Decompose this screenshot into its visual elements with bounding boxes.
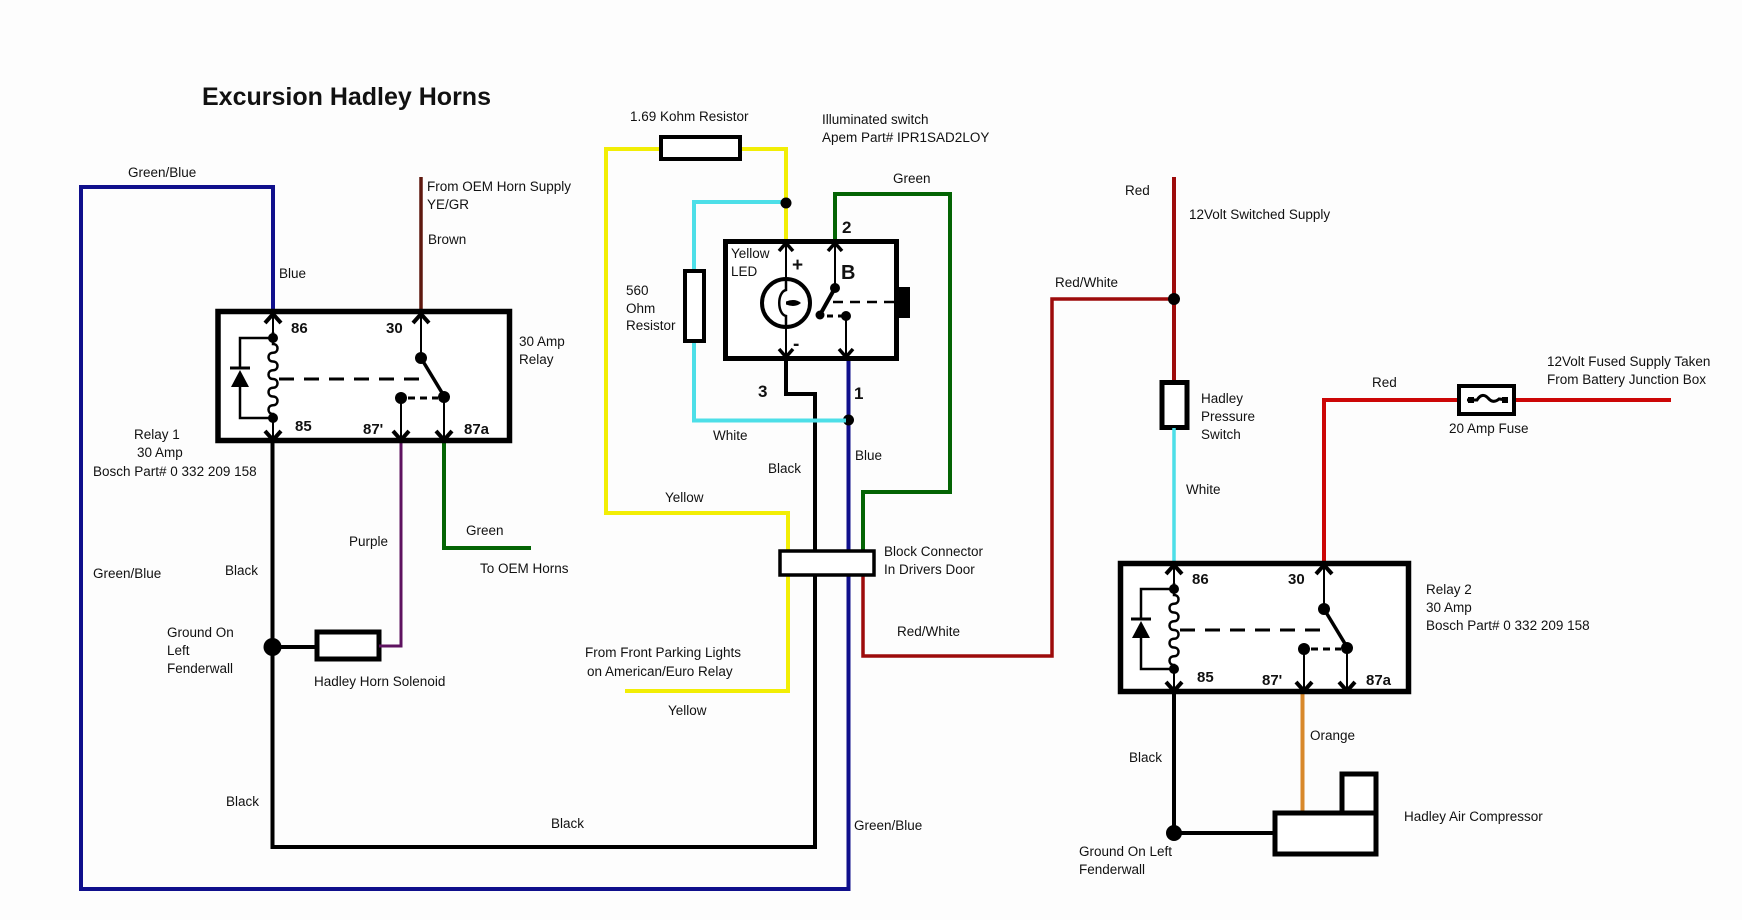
svg-text:87a: 87a <box>1366 672 1392 689</box>
relay K2 pin 30 lead <box>1323 564 1325 609</box>
relay K2 pin 30 arrow <box>1316 565 1332 574</box>
wire black from switch pin3 to ground run <box>273 361 816 847</box>
relay K2 dashed 87' contact gap <box>1311 648 1341 651</box>
relay K2 pin 86 lead <box>1173 564 1175 589</box>
svg-text:Bosch Part# 0 332 209 158: Bosch Part# 0 332 209 158 <box>93 464 257 479</box>
lamp DS1 filament arc <box>779 280 786 327</box>
node junction blue/white at switch pin1 <box>843 415 854 426</box>
svg-text:Black: Black <box>226 794 259 809</box>
relay K2 node 87' contact <box>1298 643 1310 655</box>
relay K1 pin 86 arrow <box>265 314 281 323</box>
svg-text:86: 86 <box>291 320 308 337</box>
relay K1 diode branch wire <box>240 338 273 418</box>
svg-text:Apem Part# IPR1SAD2LOY: Apem Part# IPR1SAD2LOY <box>822 130 989 145</box>
svg-text:Relay 2: Relay 2 <box>1426 582 1472 597</box>
node ground junction relay2 <box>1166 825 1182 841</box>
switch S1 pin 1 lead <box>845 316 847 359</box>
relay K2 diode branch wire <box>1141 589 1174 669</box>
svg-text:Red: Red <box>1372 375 1397 390</box>
svg-text:Red: Red <box>1125 183 1150 198</box>
svg-text:560: 560 <box>626 283 649 298</box>
wire orange relay2 pin87' to compressor <box>1301 694 1305 813</box>
svg-text:Red/White: Red/White <box>897 624 960 639</box>
relay K1 pin 87a lead <box>443 397 445 440</box>
relay K2 pin 87a arrow <box>1339 682 1355 691</box>
compressor M1 head box <box>1342 774 1376 813</box>
switch S1 arm tip dot <box>816 311 825 320</box>
lamp DS1 filament lens <box>786 300 801 306</box>
wire brown from OEM horn supply to relay1 pin30 <box>419 177 423 310</box>
svg-text:87a: 87a <box>464 421 490 438</box>
switch S1 toggle arm <box>821 288 835 313</box>
svg-text:85: 85 <box>1197 669 1214 686</box>
relay K2 node coil top <box>1169 584 1179 594</box>
relay K2 body <box>1121 564 1409 692</box>
node junction yellow/white <box>781 198 792 209</box>
wire red 12Volt switched supply <box>1172 177 1176 380</box>
relay K1 node common <box>415 352 427 364</box>
svg-text:85: 85 <box>295 418 312 435</box>
wire green relay1 pin87a to OEM horns <box>444 443 531 548</box>
relay K2 coil <box>1170 583 1179 669</box>
svg-text:1.69 Kohm Resistor: 1.69 Kohm Resistor <box>630 109 749 124</box>
node junction red/white on 12V supply <box>1168 293 1180 305</box>
svg-text:1: 1 <box>854 384 863 403</box>
svg-text:Green: Green <box>466 523 504 538</box>
svg-text:Illuminated switch: Illuminated switch <box>822 112 929 127</box>
svg-text:Ground On: Ground On <box>167 625 234 640</box>
svg-text:White: White <box>1186 482 1221 497</box>
svg-text:12Volt Fused Supply Taken: 12Volt Fused Supply Taken <box>1547 354 1710 369</box>
svg-text:White: White <box>713 428 748 443</box>
switch S1 LED anode lead <box>785 242 787 280</box>
svg-text:Green/Blue: Green/Blue <box>854 818 922 833</box>
relay K1 pin 30 arrow <box>413 314 429 323</box>
wire green switch pin2 to block connector <box>835 194 950 551</box>
relay K2 pin 87' arrow <box>1296 682 1312 691</box>
svg-text:Ohm: Ohm <box>626 301 655 316</box>
relay K2 pin 85 arrow <box>1166 682 1182 691</box>
svg-text:Switch: Switch <box>1201 427 1241 442</box>
wire yellow from parking lights to resistor R1 <box>606 149 788 691</box>
wire red/white block connector to 12V junction <box>863 299 1171 656</box>
relay K1 coil <box>269 332 278 418</box>
relay K1 actuation dashed link <box>279 378 429 381</box>
svg-text:Orange: Orange <box>1310 728 1355 743</box>
svg-text:3: 3 <box>758 382 767 401</box>
relay K1 diode D1 cathode bar <box>230 367 250 370</box>
resistor R1 1.69 Kohm <box>661 137 740 159</box>
relay K2 pin 85 lead <box>1173 669 1175 691</box>
fuse F1 20 Amp box <box>1459 386 1514 414</box>
svg-text:YE/GR: YE/GR <box>427 197 469 212</box>
svg-text:Black: Black <box>1129 750 1162 765</box>
relay K1 node coil top <box>268 333 278 343</box>
svg-text:Fenderwall: Fenderwall <box>1079 862 1145 877</box>
relay K2 switch arm <box>1324 609 1347 647</box>
svg-text:Relay: Relay <box>519 352 554 367</box>
switch S1 node pivot <box>830 283 840 293</box>
relay K1 pin 85 arrow <box>265 431 281 440</box>
svg-text:30 Amp: 30 Amp <box>137 445 183 460</box>
relay K1 pin 86 lead <box>272 313 274 338</box>
resistor R2 560 Ohm <box>685 271 704 341</box>
svg-text:From OEM Horn Supply: From OEM Horn Supply <box>427 179 571 194</box>
svg-text:30: 30 <box>386 320 403 337</box>
svg-text:Black: Black <box>768 461 801 476</box>
relay K1 pin 87a arrow <box>436 431 452 440</box>
svg-text:+: + <box>792 255 803 276</box>
svg-text:30: 30 <box>1288 571 1305 588</box>
svg-text:Pressure: Pressure <box>1201 409 1255 424</box>
svg-text:In Drivers Door: In Drivers Door <box>884 562 975 577</box>
relay K2 diode D2 cathode bar <box>1131 618 1151 621</box>
svg-text:Yellow: Yellow <box>665 490 704 505</box>
wire yellow from resistor R1 to switch pin + <box>740 149 786 239</box>
svg-text:20 Amp Fuse: 20 Amp Fuse <box>1449 421 1529 436</box>
relay K2 node common <box>1318 603 1330 615</box>
relay K2 pin 87a lead <box>1346 648 1348 691</box>
switch S1 pin B arrow <box>828 243 842 251</box>
block connector J1 in drivers door <box>780 551 874 575</box>
solenoid L1 Hadley Horn Solenoid box <box>317 632 379 659</box>
svg-text:87': 87' <box>363 421 383 438</box>
relay K2 actuation dashed link <box>1180 629 1330 632</box>
switch S1 dashed contact gap <box>827 315 842 318</box>
wire black relay2 pin85 to ground <box>1174 694 1275 833</box>
svg-text:12Volt Switched Supply: 12Volt Switched Supply <box>1189 207 1330 222</box>
wire black ground to solenoid <box>273 645 318 649</box>
svg-text:From Battery Junction Box: From Battery Junction Box <box>1547 372 1706 387</box>
wire Green/Blue loop (relay1 pin86 to switch pin1 return) <box>81 187 849 889</box>
svg-text:30 Amp: 30 Amp <box>519 334 565 349</box>
svg-text:Left: Left <box>167 643 190 658</box>
svg-text:87': 87' <box>1262 672 1282 689</box>
svg-text:Relay 1: Relay 1 <box>134 427 180 442</box>
wire white (cyan) from LED junction through R2 to pin1 junction <box>694 202 846 421</box>
svg-text:Hadley Air Compressor: Hadley Air Compressor <box>1404 809 1543 824</box>
fuse F1 element <box>1467 395 1507 401</box>
lamp DS1 yellow LED circle <box>762 279 810 327</box>
svg-text:Blue: Blue <box>855 448 882 463</box>
relay K1 pin 30 lead <box>420 313 422 358</box>
svg-text:2: 2 <box>842 218 851 237</box>
svg-text:Hadley: Hadley <box>1201 391 1243 406</box>
wire red from battery junction box to fuse F1 <box>1514 398 1671 402</box>
switch S1 body <box>726 242 897 359</box>
illuminated switch S1 (Apem IPR1SAD2LOY) <box>726 242 911 360</box>
svg-text:Block Connector: Block Connector <box>884 544 984 559</box>
svg-text:Black: Black <box>225 563 258 578</box>
svg-text:Ground On Left: Ground On Left <box>1079 844 1172 859</box>
svg-text:Red/White: Red/White <box>1055 275 1118 290</box>
relay K1 switch arm <box>421 358 444 396</box>
svg-text:-: - <box>793 334 799 355</box>
svg-text:86: 86 <box>1192 571 1209 588</box>
relay K1 (Relay 1, 30 Amp Bosch) <box>218 312 510 441</box>
svg-text:Hadley Horn Solenoid: Hadley Horn Solenoid <box>314 674 445 689</box>
switch S1 node pin1 contact <box>841 311 851 321</box>
relay K1 body <box>218 312 510 441</box>
svg-text:Black: Black <box>551 816 584 831</box>
relay K2 diode D2 triangle <box>1132 621 1150 638</box>
svg-text:30 Amp: 30 Amp <box>1426 600 1472 615</box>
svg-text:Yellow: Yellow <box>668 703 707 718</box>
relay K1 pin 85 lead <box>272 418 274 440</box>
switch S1 actuator tab <box>897 287 910 318</box>
switch S1 pin 3 arrow <box>779 349 793 357</box>
relay K2 (Relay 2, 30 Amp Bosch) <box>1121 564 1409 692</box>
pressure switch S2 Hadley box <box>1162 383 1187 428</box>
switch S1 pin B lead <box>834 242 836 288</box>
svg-text:Yellow: Yellow <box>731 246 770 261</box>
relay K2 node coil bottom <box>1169 664 1179 674</box>
switch S1 dashed link to actuator tab <box>833 301 897 304</box>
svg-text:Brown: Brown <box>428 232 466 247</box>
svg-text:Green/Blue: Green/Blue <box>128 165 196 180</box>
node ground junction left fenderwall <box>264 638 282 656</box>
relay K2 pin 86 arrow <box>1166 565 1182 574</box>
relay K1 node coil bottom <box>268 413 278 423</box>
svg-text:To OEM Horns: To OEM Horns <box>480 561 569 576</box>
wire purple relay1 pin87' to solenoid <box>379 443 401 646</box>
wire white pressure switch to relay2 pin86 <box>1172 428 1176 561</box>
svg-text:Green/Blue: Green/Blue <box>93 566 161 581</box>
wire red fused supply to relay2 pin30 <box>1324 400 1459 561</box>
svg-text:From Front Parking Lights: From Front Parking Lights <box>585 645 741 660</box>
svg-text:LED: LED <box>731 264 758 279</box>
svg-text:Blue: Blue <box>279 266 306 281</box>
relay K1 node 87' contact <box>395 392 407 404</box>
relay K2 node 87a contact <box>1341 642 1353 654</box>
switch S1 LED cathode lead <box>785 327 787 359</box>
relay K1 node 87a contact <box>438 391 450 403</box>
svg-text:Excursion Hadley Horns: Excursion Hadley Horns <box>202 83 491 111</box>
svg-text:Purple: Purple <box>349 534 388 549</box>
svg-text:Resistor: Resistor <box>626 318 676 333</box>
svg-text:B: B <box>841 262 855 284</box>
relay K1 pin 87' lead <box>400 398 402 440</box>
compressor M1 Hadley Air Compressor body <box>1275 813 1376 854</box>
svg-text:Green: Green <box>893 171 931 186</box>
svg-text:Fenderwall: Fenderwall <box>167 661 233 676</box>
relay K2 pin 87' lead <box>1303 649 1305 691</box>
svg-text:Bosch Part# 0 332 209 158: Bosch Part# 0 332 209 158 <box>1426 618 1590 633</box>
switch S1 pin + arrow <box>779 243 793 251</box>
relay K1 pin 87' arrow <box>393 431 409 440</box>
relay K1 diode D1 triangle <box>231 370 249 387</box>
switch S1 pin 1 arrow <box>839 349 853 357</box>
relay K1 dashed 87' contact gap <box>408 397 438 400</box>
svg-text:on American/Euro Relay: on American/Euro Relay <box>587 664 733 679</box>
